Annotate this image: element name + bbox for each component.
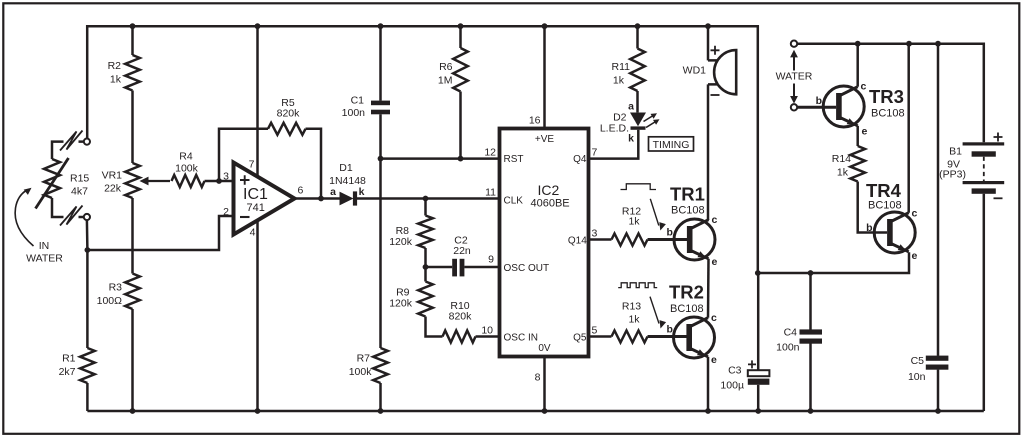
IC IC2 [500, 129, 589, 357]
svg-text:5: 5 [592, 325, 598, 337]
svg-text:120k: 120k [389, 298, 413, 310]
svg-text:100Ω: 100Ω [97, 295, 123, 307]
svg-text:OSC OUT: OSC OUT [504, 263, 550, 274]
label pin 7 Q4 [592, 147, 598, 159]
junction R3/0V rail [130, 408, 136, 414]
svg-text:b: b [667, 227, 673, 239]
wire switched supply node [758, 252, 909, 273]
junction C5/water rail [935, 41, 941, 47]
label R7 [349, 353, 373, 379]
svg-text:1k: 1k [110, 74, 122, 86]
annotation arrow IN WATER [15, 188, 33, 246]
junction R6/+V rail [458, 23, 464, 29]
annotation arrow TR1 base [650, 199, 666, 231]
wire TR4 collector [907, 44, 910, 213]
water annotation arrows [790, 50, 798, 104]
svg-text:100µ: 100µ [720, 380, 744, 392]
label D1 [329, 162, 366, 198]
svg-text:C1: C1 [351, 95, 365, 107]
svg-text:OSC IN: OSC IN [504, 333, 538, 344]
capacitor C5 [926, 44, 949, 411]
svg-text:e: e [862, 126, 868, 138]
svg-text:C3: C3 [728, 365, 742, 377]
svg-text:R1: R1 [62, 353, 76, 365]
resistor R15 [44, 159, 60, 198]
label R1 [59, 353, 76, 379]
svg-text:1k: 1k [628, 216, 640, 228]
junction R2/+V rail [130, 23, 136, 29]
label C2 [453, 235, 471, 258]
capacitor C3 [748, 273, 770, 411]
svg-text:120k: 120k [389, 236, 413, 248]
wire VR1 to R3 [131, 198, 134, 274]
junction C5/0V rail [935, 408, 941, 414]
IC2 RST label [504, 154, 524, 165]
junction C4/node [808, 270, 814, 276]
label TR1 [670, 184, 705, 217]
resistor R12 [612, 234, 648, 246]
junction R8/CLK [423, 196, 429, 202]
label R4 [175, 151, 199, 175]
svg-text:R11: R11 [612, 61, 631, 73]
label pin 3 Q14 [592, 228, 598, 240]
IC2 pin16 wire [543, 26, 546, 128]
svg-text:+VE: +VE [535, 134, 555, 145]
svg-text:(PP3): (PP3) [939, 169, 966, 181]
label C5 [908, 355, 926, 383]
label pin 4 [250, 227, 256, 239]
resistor R14 [850, 146, 887, 233]
svg-text:b: b [866, 222, 872, 234]
resistor R9 [418, 267, 442, 337]
wire TR3 collector [856, 44, 859, 87]
wire TR3 emitter to R14 [856, 126, 859, 146]
label R8 [389, 225, 413, 248]
resistor R6 [453, 26, 468, 158]
resistor R4 [172, 175, 220, 187]
resistor R8 [418, 199, 433, 268]
IC2 OSC OUT label [504, 263, 550, 274]
junction R7/0V rail [378, 408, 384, 414]
resistor R5 [268, 123, 306, 135]
resistor R7 [373, 348, 388, 411]
svg-text:3: 3 [223, 171, 229, 183]
wire 0V rail [87, 410, 983, 413]
wire rail to WD1 [707, 26, 710, 60]
label R10 [449, 300, 473, 323]
svg-text:e: e [912, 250, 918, 262]
resistor R2 [125, 26, 140, 163]
svg-text:100n: 100n [776, 342, 800, 354]
svg-text:WATER: WATER [26, 253, 63, 265]
svg-text:R3: R3 [109, 282, 123, 294]
label c TR4 [912, 208, 918, 220]
svg-text:22n: 22n [453, 245, 471, 257]
svg-text:11: 11 [485, 187, 496, 199]
svg-text:TIMING: TIMING [653, 139, 690, 151]
label pin 10 [481, 325, 493, 337]
svg-text:IC1: IC1 [243, 186, 268, 203]
potentiometer VR1 [125, 163, 170, 198]
svg-text:3: 3 [592, 228, 598, 240]
label pin 16 [529, 115, 541, 127]
wire water rail [797, 44, 984, 143]
label pin 11 [485, 187, 496, 199]
svg-text:R14: R14 [832, 153, 851, 165]
capacitor C1 [371, 26, 390, 158]
svg-text:TR3: TR3 [869, 86, 904, 107]
junction C4/0V rail [808, 408, 814, 414]
svg-text:7: 7 [592, 147, 598, 159]
svg-text:L.E.D.: L.E.D. [600, 123, 629, 135]
label B1 minus [994, 197, 1003, 199]
label D2 [600, 101, 634, 145]
wire feedback to pin3 [219, 129, 268, 181]
svg-text:VR1: VR1 [102, 170, 123, 182]
svg-text:22k: 22k [104, 183, 122, 195]
svg-text:IC2: IC2 [538, 182, 560, 198]
svg-text:0V: 0V [538, 343, 551, 354]
label c TR1 [712, 214, 718, 226]
waveform square wave [618, 283, 657, 288]
wire pin2 net [87, 216, 233, 250]
svg-text:6: 6 [298, 185, 304, 197]
wire Q4 to LED [589, 130, 639, 159]
transistor TR1 [674, 219, 715, 260]
svg-text:TR4: TR4 [866, 180, 902, 201]
label R3 [97, 282, 123, 308]
led D2 [630, 113, 660, 130]
IC2 0V label [538, 343, 551, 354]
annotation arrow TR2 base [650, 297, 666, 329]
svg-text:2: 2 [223, 206, 229, 218]
svg-text:BC108: BC108 [868, 200, 902, 212]
IC1 pin4 wire [256, 220, 259, 411]
svg-text:b: b [667, 324, 673, 336]
label c TR2 [711, 312, 717, 324]
diode D1 [340, 191, 358, 205]
label b TR3 [816, 95, 822, 107]
IC2 OSC IN label [504, 333, 538, 344]
svg-text:C5: C5 [911, 355, 925, 367]
label TR2 [669, 282, 704, 316]
svg-text:R2: R2 [108, 60, 122, 72]
waveform single pulse [621, 184, 657, 190]
label R12 [622, 205, 641, 227]
svg-text:100k: 100k [175, 163, 199, 175]
junction pin8/0V rail [542, 408, 548, 414]
svg-text:Q4: Q4 [573, 154, 587, 165]
label R2 [108, 60, 122, 86]
resistor R13 [612, 331, 648, 343]
svg-text:10n: 10n [908, 371, 926, 383]
label R9 [389, 287, 413, 310]
transistor TR3 [823, 86, 864, 127]
svg-text:4060BE: 4060BE [531, 198, 570, 210]
svg-text:1k: 1k [628, 314, 640, 326]
label pin 3 [223, 171, 229, 183]
label B1 [939, 146, 966, 181]
svg-text:a: a [628, 101, 634, 113]
IC2 Q4 label [573, 154, 587, 165]
svg-text:C4: C4 [784, 327, 798, 339]
label R13 [622, 301, 641, 326]
svg-text:R7: R7 [357, 353, 371, 365]
transistor TR2 [674, 317, 715, 358]
wire D1 to CLK [356, 197, 499, 200]
svg-text:R4: R4 [179, 151, 193, 163]
label b TR2 [667, 324, 673, 336]
op-amp IC1 [234, 163, 295, 235]
junction IC1 pin7/+V rail [255, 23, 261, 29]
svg-text:1k: 1k [837, 167, 849, 179]
label pin 12 [484, 147, 496, 159]
wire R12 to TR1 base [648, 238, 688, 241]
svg-text:7: 7 [249, 159, 255, 171]
junction R8/R9/C2 [423, 264, 429, 270]
capacitor C2 [426, 259, 500, 277]
junction pin4/0V rail [255, 408, 261, 414]
capacitor C4 [800, 273, 823, 411]
sounder WD1 [708, 50, 736, 94]
svg-text:1M: 1M [438, 75, 453, 87]
label WD1 plus [711, 46, 720, 55]
wire lower probe to R1 [86, 220, 89, 348]
svg-text:2k7: 2k7 [59, 366, 76, 378]
junction TR4/water rail [906, 41, 912, 47]
svg-text:4: 4 [250, 227, 256, 239]
IC2 Q5 label [573, 333, 587, 344]
svg-text:D1: D1 [339, 162, 353, 174]
svg-text:R15: R15 [70, 173, 89, 185]
R15 variable strike [36, 158, 69, 209]
svg-text:1k: 1k [613, 75, 625, 87]
svg-text:CLK: CLK [504, 196, 524, 207]
wire Q5 to R13 [589, 335, 612, 338]
label B1 plus [994, 133, 1003, 142]
label e TR4 [912, 250, 918, 262]
label C1 [342, 95, 366, 120]
label b TR1 [667, 227, 673, 239]
label VR1 [102, 170, 123, 195]
svg-text:Q14: Q14 [568, 236, 587, 247]
label WATER right [776, 71, 813, 83]
wire R4 to pin3 [219, 180, 234, 183]
svg-text:c: c [861, 81, 867, 93]
label R6 [438, 61, 453, 87]
label IC1 [243, 186, 268, 214]
resistor R11 [630, 26, 645, 112]
svg-text:R13: R13 [622, 301, 641, 313]
label R15 [70, 173, 89, 198]
svg-text:IN: IN [39, 240, 50, 252]
battery B1 [963, 142, 1005, 411]
junction C1/RST [378, 156, 384, 162]
svg-text:e: e [712, 256, 718, 268]
svg-text:WD1: WD1 [683, 65, 706, 77]
wire lower terminal to TR3 base [797, 106, 836, 109]
wire TR2 emitter to 0V [707, 357, 710, 411]
label WD1 minus [711, 94, 720, 96]
junction pin3 node [216, 178, 222, 184]
resistor R1 [80, 348, 95, 411]
svg-text:TR1: TR1 [670, 184, 705, 205]
wire IC1 output [295, 197, 340, 200]
svg-text:k: k [359, 186, 365, 198]
svg-text:12: 12 [484, 147, 496, 159]
wire C1 to R7 [379, 159, 382, 348]
junction TR2/0V rail [705, 408, 711, 414]
resistor R10 [443, 331, 500, 343]
svg-text:R6: R6 [439, 61, 453, 73]
svg-text:c: c [711, 312, 717, 324]
wire R5 to output [306, 129, 322, 199]
label IC2 [531, 182, 570, 210]
label R14 [832, 153, 851, 179]
svg-text:Q5: Q5 [573, 333, 587, 344]
probe contact lower [52, 198, 90, 226]
label TR4 [866, 180, 902, 212]
wire WD1 to TR1 collector [707, 84, 710, 220]
label e TR1 [712, 256, 718, 268]
label c TR3 [861, 81, 867, 93]
label pin 8 [535, 372, 541, 384]
water terminal lower [791, 104, 797, 110]
svg-text:c: c [912, 208, 918, 220]
label TR3 [869, 86, 905, 120]
junction R6/RST [458, 156, 464, 162]
svg-text:100n: 100n [342, 107, 366, 119]
IC2 +VE label [535, 134, 555, 145]
label pin 5 Q5 [592, 325, 598, 337]
wire Q14 to R12 [589, 238, 612, 241]
svg-text:e: e [711, 354, 717, 366]
label pin 7 [249, 159, 255, 171]
junction rail drop/node [755, 270, 761, 276]
label TIMING box [649, 137, 694, 151]
IC2 pin8 wire [543, 357, 546, 412]
label IN WATER [26, 240, 63, 265]
svg-text:10: 10 [481, 325, 493, 337]
resistor R3 [125, 274, 140, 412]
IC2 CLK label [504, 196, 524, 207]
IC1 pin7 wire [256, 26, 259, 177]
label e TR3 [862, 126, 868, 138]
wire RST line [381, 157, 500, 160]
svg-text:a: a [330, 186, 336, 198]
svg-text:RST: RST [504, 154, 524, 165]
svg-text:4k7: 4k7 [71, 186, 88, 198]
label e TR2 [711, 354, 717, 366]
svg-text:k: k [628, 133, 634, 145]
svg-text:16: 16 [529, 115, 541, 127]
svg-text:TR2: TR2 [669, 282, 704, 303]
junction C3/0V rail [755, 408, 761, 414]
svg-text:B1: B1 [949, 146, 962, 158]
junction R5/output [318, 196, 324, 202]
svg-text:8: 8 [535, 372, 541, 384]
junction C1/+V rail [378, 23, 384, 29]
svg-text:b: b [816, 95, 822, 107]
label C4 [776, 327, 800, 354]
label b TR4 [866, 222, 872, 234]
junction TR3/water rail [855, 41, 861, 47]
wire R13 to TR2 base [648, 335, 687, 338]
svg-text:820k: 820k [449, 311, 473, 323]
svg-text:100k: 100k [349, 366, 373, 378]
transistor TR4 [874, 212, 915, 253]
svg-text:820k: 820k [277, 108, 301, 120]
probe contact upper [52, 131, 90, 160]
svg-text:9: 9 [488, 254, 494, 266]
svg-text:BC108: BC108 [670, 303, 704, 315]
label R5 [277, 97, 301, 120]
svg-text:741: 741 [247, 202, 265, 214]
junction probe/pin2 node [85, 247, 91, 253]
svg-text:BC108: BC108 [671, 205, 705, 217]
svg-text:BC108: BC108 [871, 108, 905, 120]
wire +V supply rail [87, 26, 758, 273]
svg-text:WATER: WATER [776, 71, 813, 83]
IC2 Q14 label [568, 236, 587, 247]
svg-text:c: c [712, 214, 718, 226]
label pin 9 [488, 254, 494, 266]
wire TR1 emitter to TR2 collector [707, 259, 710, 318]
label WD1 [683, 65, 706, 77]
junction WD1/+V rail [705, 23, 711, 29]
junction IC2 pin16/+V rail [542, 23, 548, 29]
label pin 2 [223, 206, 229, 218]
junction R11/+V rail [635, 23, 641, 29]
label pin 6 [298, 185, 304, 197]
label R11 [612, 61, 631, 87]
label C3 [720, 365, 744, 392]
water terminal upper [791, 41, 797, 47]
